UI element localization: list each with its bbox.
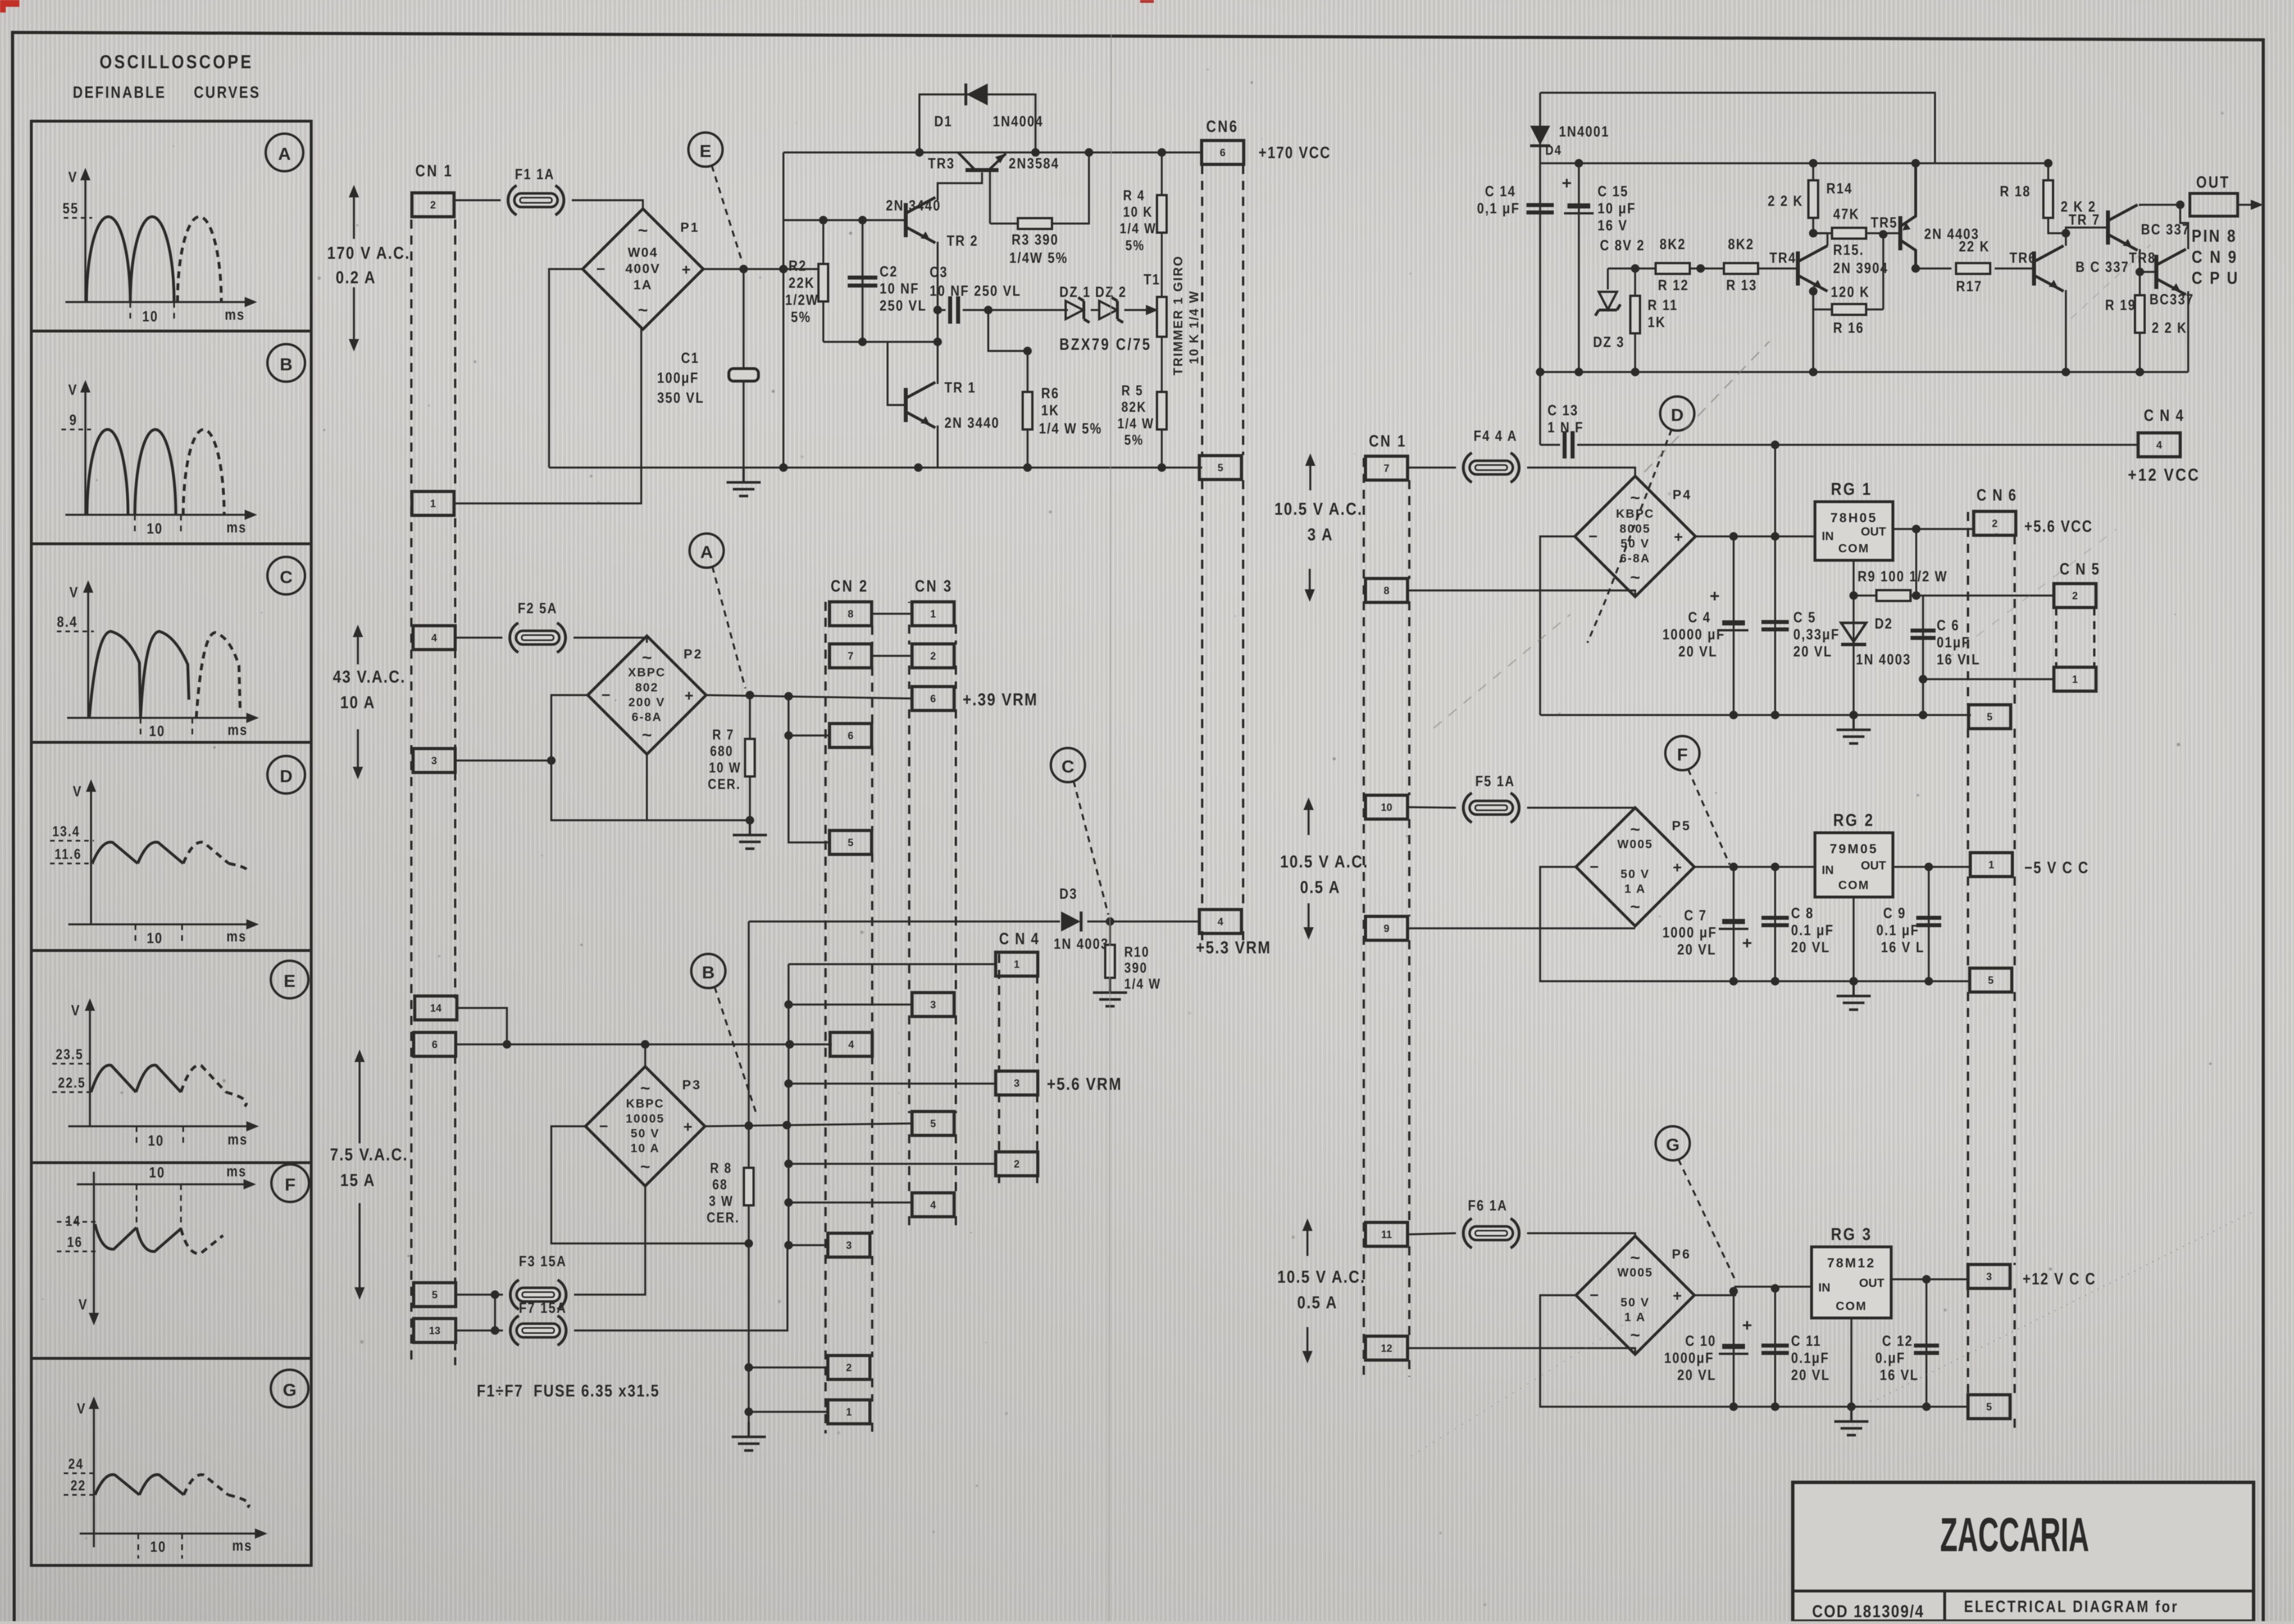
vertical bus from P1+ up to rail [782,152,784,468]
svg-text:~: ~ [1630,820,1640,839]
wire P2 bottom vertex stub [646,755,647,820]
svg-text:TR6: TR6 [2010,250,2037,266]
svg-text:R9 100 1/2 W: R9 100 1/2 W [1858,568,1948,585]
svg-text:20 VL: 20 VL [1677,941,1717,958]
bottom rail of transistor block [1540,371,2188,373]
wire CN1-1 to bridge P1 bottom [454,329,641,503]
dashed leader from F to P5 [1688,769,1730,865]
svg-text:R17: R17 [1956,278,1982,295]
svg-text:1N 4003: 1N 4003 [1856,651,1911,668]
TR2 emitter down to C3 node [936,242,938,342]
branch P2+ down to CN2-6 and CN2-5 [789,696,830,842]
svg-text:20 VL: 20 VL [1677,1367,1717,1383]
transistor TR2 2N3440 [906,197,935,243]
transistor TR5 2N4403 (PNP) [1900,163,1916,268]
distribution bus x=1386 [787,964,789,1245]
svg-text:+5.6 VCC: +5.6 VCC [2024,517,2093,535]
svg-text:C 12: C 12 [1882,1333,1913,1349]
wire P6 plus to RG3 [1694,1287,1812,1295]
svg-text:E: E [284,971,296,991]
svg-text:C 7: C 7 [1684,907,1707,924]
svg-text:0.2 A: 0.2 A [336,268,376,288]
diode D2 1N4003 [1841,623,1866,644]
svg-text:1/4 W 5%: 1/4 W 5% [1039,420,1102,437]
svg-text:5: 5 [1218,462,1223,473]
RG1 COM down [1852,560,1854,715]
svg-text:R 5: R 5 [1121,382,1144,398]
svg-text:C 15: C 15 [1598,183,1628,200]
svg-text:50 V: 50 V [1620,1296,1649,1309]
svg-text:79M05: 79M05 [1830,841,1878,856]
resistor R7 680 10W CER [749,695,750,739]
svg-text:8K2: 8K2 [1728,236,1754,253]
svg-text:2N3584: 2N3584 [1009,155,1059,172]
wire CN1-12 to P6 bottom [1408,1348,1635,1355]
connector CN4 pin 4 (+12) [2138,433,2180,457]
svg-text:3 W: 3 W [709,1193,733,1209]
svg-text:4: 4 [2156,439,2162,451]
connector CN3 pin 4 [912,1193,954,1217]
svg-text:10: 10 [147,520,163,537]
svg-text:1K: 1K [1648,314,1666,330]
svg-text:10: 10 [148,1133,164,1149]
dashed leader from D to P4 output [1587,429,1672,643]
svg-text:1/4 W: 1/4 W [1120,220,1157,236]
transistor TR4 2N3904 [1798,246,1827,291]
svg-text:120 K: 120 K [1831,284,1870,300]
svg-text:TR 1: TR 1 [944,379,976,396]
svg-text:ms: ms [225,307,245,323]
svg-text:COD 181309/4: COD 181309/4 [1812,1602,1924,1621]
title block frame [1793,1482,2254,1621]
svg-text:ms: ms [226,1163,247,1180]
svg-text:+: + [1673,1287,1682,1304]
svg-text:400V: 400V [625,261,661,276]
svg-text:A: A [278,144,291,164]
connector CN1 pin 7 [1365,456,1408,480]
wire CN1-11 to F6 to P6 [1408,1233,1456,1234]
svg-text:50 V: 50 V [1620,867,1649,881]
svg-text:V: V [71,1002,81,1019]
svg-text:6: 6 [1220,147,1226,158]
svg-text:V: V [79,1296,88,1313]
ground below C1 [727,468,761,496]
transistor TR1 2N3440 [906,382,935,428]
svg-text:10.5 V A.C.: 10.5 V A.C. [1280,852,1368,872]
TR8 emitter to rail [2187,291,2189,372]
svg-text:−: − [1590,858,1599,875]
bridge rectifier P3 KBPC 10005 [585,1067,705,1186]
svg-text:DZ 1: DZ 1 [1059,284,1091,300]
node B circle [691,954,725,988]
svg-text:22K: 22K [789,275,815,291]
common bus down to ground (left) [748,921,749,1168]
waveform C [57,580,259,739]
ground P5 section [1837,981,1871,1010]
node C circle [1051,748,1085,782]
zener DZ2 [1099,297,1123,323]
svg-text:+: + [683,1118,692,1135]
svg-text:10 K: 10 K [1123,204,1153,220]
capacitor C7 1000uF 20VL [1732,867,1734,981]
svg-text:~: ~ [1630,1326,1640,1345]
wire to CN4-2 [789,1163,997,1164]
svg-text:G: G [283,1380,296,1400]
svg-text:CER.: CER. [708,776,741,792]
svg-text:W005: W005 [1618,1266,1653,1279]
svg-text:11: 11 [1381,1229,1392,1240]
svg-text:R 11: R 11 [1648,297,1678,313]
connector CN1 pin 3 [413,749,455,772]
svg-text:9: 9 [1384,923,1389,934]
svg-text:C P U: C P U [2192,268,2239,288]
svg-text:10 NF 250 VL: 10 NF 250 VL [930,283,1021,299]
svg-text:8K2: 8K2 [1660,236,1686,253]
svg-text:+5.3 VRM: +5.3 VRM [1196,938,1271,958]
svg-text:5: 5 [1988,974,1994,986]
svg-text:−5 V C C: −5 V C C [2024,858,2089,877]
bias wire y=472 [1608,267,1796,269]
svg-text:R 7: R 7 [712,726,735,742]
svg-text:P1: P1 [680,220,700,234]
svg-text:1K: 1K [1041,402,1059,419]
node A circle [690,534,724,568]
svg-text:F7 15A: F7 15A [519,1300,567,1316]
svg-text:C3: C3 [930,264,948,280]
wire P1 plus output [703,268,823,270]
wire to CN2-3 [789,1244,828,1246]
left vertical bus to +12 wire [1539,163,1541,445]
svg-text:10: 10 [149,1164,165,1181]
oscilloscope curve frames A-G [31,121,311,1565]
TR4 collector to R14/R15 node [1826,233,1828,246]
svg-text:250 VL: 250 VL [880,297,927,314]
svg-text:5: 5 [1986,1401,1992,1412]
connector CN2 pin 3 (lower) [828,1233,870,1257]
arrows 43VAC span [353,625,363,664]
svg-text:3 A: 3 A [1307,525,1333,545]
wire P5 plus to RG2 [1694,866,1815,867]
capacitor C8 0.1uF 20VL [1774,867,1776,981]
svg-text:R2: R2 [789,258,807,274]
svg-text:C: C [1062,757,1074,776]
waveform F (negative) [57,1163,256,1325]
svg-text:20 VL: 20 VL [1791,1367,1830,1383]
connector CN1 dashed column (left top) [410,220,412,1365]
svg-text:0.μF: 0.μF [1875,1350,1905,1366]
svg-text:2: 2 [2072,590,2078,601]
svg-text:~: ~ [1630,568,1640,587]
TR6 emitter to rail [2065,290,2066,372]
top bias rail y=287 [1540,162,1935,164]
svg-text:F6 1A: F6 1A [1468,1197,1508,1214]
svg-text:2: 2 [430,199,436,210]
svg-text:20 VL: 20 VL [1678,643,1718,660]
svg-text:10.5 V A.C.: 10.5 V A.C. [1274,499,1363,519]
svg-text:C N 4: C N 4 [2144,406,2184,424]
svg-text:C 6: C 6 [1937,617,1959,634]
wire RG1 OUT to CN6-2 [1893,528,1974,530]
svg-text:+.39 VRM: +.39 VRM [963,690,1038,710]
wire R2/C2 bottom tie [823,341,938,342]
svg-text:R 18: R 18 [2000,183,2031,200]
connector CN6 pin 6 (+170) [1202,141,1244,164]
connector CN1 pin 11 [1365,1222,1408,1246]
svg-text:IN: IN [1818,1282,1830,1295]
resistor R12 8K2 [1656,263,1690,274]
bias wire TR5 emitter to R17 [1916,267,1951,269]
svg-text:C 13: C 13 [1548,402,1578,419]
svg-text:1 A: 1 A [1624,1311,1646,1324]
svg-text:F4 4 A: F4 4 A [1474,428,1517,444]
main ground rail of 170V section [549,466,1202,468]
svg-text:24: 24 [68,1456,84,1472]
svg-text:+: + [1710,587,1720,606]
svg-text:D: D [280,766,292,786]
svg-text:7.5 V.A.C.: 7.5 V.A.C. [330,1145,408,1165]
red table edge top-left [0,0,19,7]
resistor R3 390 1/4W 5% [990,152,1089,224]
svg-text:R 16: R 16 [1833,320,1864,336]
connector CN4 pin 2 [996,1152,1038,1176]
wire to CN2-1 lower [749,1411,828,1412]
wire CN1-10 to F5 to P5 [1408,807,1456,808]
svg-text:−: − [596,261,605,278]
connector CN5 pin 2 [2054,584,2096,608]
diode D1 1N4004 bypass loop [919,94,1035,152]
trimmer T1 10K [1157,297,1167,337]
svg-text:ms: ms [226,928,247,945]
svg-text:W005: W005 [1618,838,1653,851]
node E circle [688,133,723,167]
svg-text:13: 13 [429,1325,440,1336]
svg-text:D2: D2 [1875,615,1893,632]
wire CN1-9 to P5 bottom [1408,927,1635,929]
curve frame F circle [271,1164,309,1202]
svg-text:C 10: C 10 [1685,1333,1716,1349]
wire P6 minus loop to rail [1540,1295,1969,1407]
svg-text:+5.6 VRM: +5.6 VRM [1047,1075,1122,1094]
svg-text:1: 1 [846,1406,852,1418]
svg-text:1: 1 [1988,859,1994,870]
svg-text:+: + [1742,1316,1752,1335]
bridge rectifier P6 W005 (2) [1576,1236,1694,1354]
svg-text:22 K: 22 K [1959,238,1990,255]
wire CN1-2 to F1 to bridge P1 [454,199,501,201]
svg-text:5: 5 [1987,711,1992,722]
waveform G [64,1396,267,1559]
svg-text:C 4: C 4 [1688,609,1711,626]
svg-text:R 8: R 8 [710,1160,732,1176]
svg-text:OUT: OUT [1859,1277,1885,1290]
svg-text:10: 10 [1381,801,1392,813]
svg-text:3: 3 [1014,1077,1020,1089]
connector CN5 pin 1 [2054,667,2096,691]
svg-text:CN 3: CN 3 [915,577,953,595]
svg-text:COM: COM [1836,1300,1867,1313]
resistor R19 22K [2139,272,2140,296]
svg-text:PIN 8: PIN 8 [2192,226,2237,246]
svg-text:+12 V C C: +12 V C C [2023,1270,2096,1288]
svg-text:1000μF: 1000μF [1664,1350,1714,1366]
CN1 right dashed column [1363,458,1365,1377]
ground below R10 [1093,978,1127,1006]
svg-text:2N 3440: 2N 3440 [886,197,941,214]
svg-text:0,1 μF: 0,1 μF [1477,200,1520,217]
svg-text:9: 9 [69,412,77,428]
svg-text:B: B [702,962,715,982]
tie CN1-5/13 wires [494,1295,496,1330]
node G circle (schematic) [1656,1126,1690,1160]
svg-text:16 V: 16 V [1598,217,1628,234]
svg-text:6-8A: 6-8A [632,710,662,724]
svg-text:5: 5 [930,1118,936,1129]
connector CN6 pin 5 [1199,456,1241,480]
svg-text:TR3: TR3 [928,155,955,172]
rail extension to TR7 [1935,162,2048,164]
connector CN6 pin 2 (+5.6) [1974,511,2016,535]
connector CN1 pin 4 [413,626,455,650]
svg-text:RG 2: RG 2 [1833,811,1875,830]
svg-text:10 NF: 10 NF [880,280,919,297]
svg-text:100μF: 100μF [657,370,699,386]
resistor R16 120K [1813,291,1883,309]
svg-text:V: V [73,783,82,800]
svg-text:T1: T1 [1144,271,1161,288]
wire P3 plus output to CN3-5 [705,1123,913,1126]
svg-text:+: + [1742,934,1752,953]
CN5 dashed box [2055,608,2057,667]
svg-text:1/2W: 1/2W [785,292,819,308]
connector CN1 pin 8 [1365,578,1408,602]
svg-text:XBPC: XBPC [628,666,666,679]
svg-text:1N4001: 1N4001 [1559,123,1610,140]
svg-text:16 V L: 16 V L [1881,939,1925,956]
svg-text:OUT: OUT [2196,173,2230,191]
svg-text:2N 3440: 2N 3440 [944,415,1000,431]
svg-text:P6: P6 [1672,1247,1691,1262]
svg-text:+: + [1674,528,1683,546]
TR6 collector up to R18 node [2065,233,2066,246]
svg-text:−: − [1590,1287,1599,1304]
connector CN1 pin 5 [414,1283,456,1307]
wire CN1-4 to F2 to bridge P2 [455,637,502,638]
svg-text:1/4W 5%: 1/4W 5% [1009,250,1068,266]
svg-text:12: 12 [1381,1342,1392,1354]
svg-text:RG 3: RG 3 [1831,1225,1872,1245]
resistor R10 390 1/4W [1109,921,1111,945]
svg-text:KBPC: KBPC [1616,507,1655,520]
CN2 dashed column [824,602,827,1433]
curve frame C circle [267,557,305,594]
svg-text:D1: D1 [934,113,952,130]
svg-text:2 2 K: 2 2 K [1768,193,1804,209]
svg-text:20 VL: 20 VL [1791,939,1830,956]
resistor R15 47K [1813,232,1883,234]
svg-text:R 4: R 4 [1123,187,1145,203]
svg-text:78M12: 78M12 [1827,1255,1875,1270]
svg-text:TR 2: TR 2 [947,233,979,249]
connector CN3 pin 5 [912,1111,954,1135]
wire RG2 OUT to CN-1 [1893,866,1971,867]
svg-text:8: 8 [848,608,853,619]
CN3 dashed column [908,602,910,603]
svg-text:6: 6 [930,693,936,704]
svg-text:200 V: 200 V [629,696,666,709]
svg-text:A: A [700,542,713,562]
resistor R17 22K [1956,263,1990,274]
svg-text:4: 4 [848,1039,854,1050]
TR3 base stub to TR2 collector [938,172,982,200]
connector CN2 pin 5 [830,830,872,854]
svg-text:F1÷F7 FUSE 6.35 x31.5: F1÷F7 FUSE 6.35 x31.5 [477,1381,660,1400]
svg-text:10 W: 10 W [709,759,741,775]
diode D4 1N4001 [1540,93,1541,125]
svg-text:F1 1A: F1 1A [515,166,555,183]
svg-text:1 N F: 1 N F [1548,419,1584,436]
svg-text:ELECTRICAL DIAGRAM for: ELECTRICAL DIAGRAM for [1964,1597,2179,1615]
svg-text:+: + [682,261,691,278]
svg-text:8.4: 8.4 [57,614,78,630]
+170 top rail [783,151,1202,153]
capacitor C5 0.33uF 20VL [1774,536,1776,715]
waveform D [50,779,259,947]
svg-text:+: + [1673,859,1682,876]
svg-text:C2: C2 [880,263,898,280]
dashed leader from G to P6 [1678,1159,1736,1283]
svg-text:R3 390: R3 390 [1012,232,1059,248]
svg-text:C 11: C 11 [1791,1333,1821,1349]
svg-text:P2: P2 [683,647,703,662]
wire base rail y=387 [783,219,905,221]
P2 bottom common wire and ground [551,761,750,820]
svg-text:V: V [68,169,78,185]
wire P5 minus loop to rail [1540,867,1971,981]
connector CN1 pin 6 [414,1032,456,1056]
connector CN1 pin 13 [414,1319,456,1342]
svg-text:22: 22 [71,1477,86,1493]
wire P1 minus loop to ground rail [549,269,583,468]
riser from P4 plus to +12 wire [1774,445,1776,536]
svg-text:ZACCARIA: ZACCARIA [1940,1508,2089,1561]
connector CN3 pin 3 [912,993,954,1016]
wire to CN4-1 [789,963,997,965]
branch to CN3-3 [789,1003,913,1005]
svg-text:47K: 47K [1833,206,1859,222]
svg-text:390: 390 [1124,960,1148,976]
svg-text:CN 1: CN 1 [1369,432,1407,450]
wire CN1-7 to F4 to P4 [1408,466,1456,468]
svg-text:F: F [285,1175,296,1195]
svg-text:DZ 3: DZ 3 [1593,334,1625,350]
wire CN2-8 to CN3-1 [872,613,913,614]
curve frame G circle [271,1370,308,1407]
svg-text:14: 14 [430,1002,442,1014]
waveform E [52,998,259,1149]
capacitor C6 0.1uF 16VL [1915,529,1917,596]
connector CN4 pin 3 (+5.6VRM) [996,1071,1038,1095]
zener DZ1 [1066,297,1090,323]
svg-text:D: D [1671,405,1684,425]
svg-text:V: V [69,584,79,601]
svg-text:1/4 W: 1/4 W [1124,976,1161,991]
svg-text:D4: D4 [1545,142,1562,158]
svg-text:IN: IN [1822,864,1834,877]
svg-text:COM: COM [1838,542,1870,555]
resistor R4 10K 1/4W 5% [1161,152,1162,196]
resistor R18 2K2 [2048,163,2066,233]
connector CN1 pin 10 [1365,795,1408,819]
